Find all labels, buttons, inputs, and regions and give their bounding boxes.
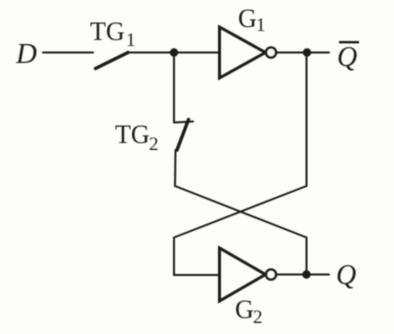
- svg-text:G: G: [235, 295, 254, 324]
- svg-text:Q: Q: [337, 42, 357, 73]
- svg-text:TG: TG: [115, 120, 150, 149]
- transmission gate TG2 contact tick: [174, 122, 193, 123]
- svg-text:G: G: [238, 4, 257, 33]
- wire D to TG1: [43, 52, 93, 54]
- transmission gate TG2 switch blade: [177, 120, 189, 151]
- svg-text:1: 1: [126, 30, 136, 51]
- svg-text:2: 2: [253, 307, 263, 328]
- node Qbar junction dot: [303, 48, 311, 56]
- wire left bend to G2 input: [174, 274, 219, 276]
- inverter G2 output bubble: [266, 270, 276, 280]
- label G2: [235, 295, 263, 328]
- svg-text:1: 1: [256, 15, 266, 36]
- wire TG1 to node A: [127, 52, 174, 54]
- inverter G2 triangle: [220, 248, 266, 301]
- wire G1 bubble to Qbar node: [277, 52, 330, 54]
- wire node A down to TG2: [173, 53, 175, 123]
- wire node A to G1 input: [174, 52, 219, 54]
- node Q junction dot: [302, 270, 310, 278]
- wire diagonal from Qbar rail to G2 input (cross): [174, 186, 307, 275]
- label TG1: [90, 17, 136, 51]
- svg-text:D: D: [15, 38, 37, 70]
- node A junction dot: [170, 48, 178, 56]
- label Qbar: [337, 41, 359, 73]
- inverter G1 output bubble: [266, 48, 276, 58]
- wire TG2 down to left bend: [174, 150, 177, 186]
- label G1: [238, 4, 266, 36]
- label TG2: [115, 120, 159, 155]
- svg-text:2: 2: [149, 134, 159, 155]
- wire G2 bubble to Q node: [277, 274, 330, 276]
- inverter G1 triangle: [220, 27, 266, 78]
- svg-text:Q: Q: [336, 260, 356, 291]
- svg-text:TG: TG: [90, 17, 125, 46]
- wire diagonal from TG2 branch to Q node (cross): [175, 186, 307, 275]
- transmission gate TG1 (switch blade): [96, 53, 129, 69]
- wire Qbar node down right rail: [306, 53, 308, 187]
